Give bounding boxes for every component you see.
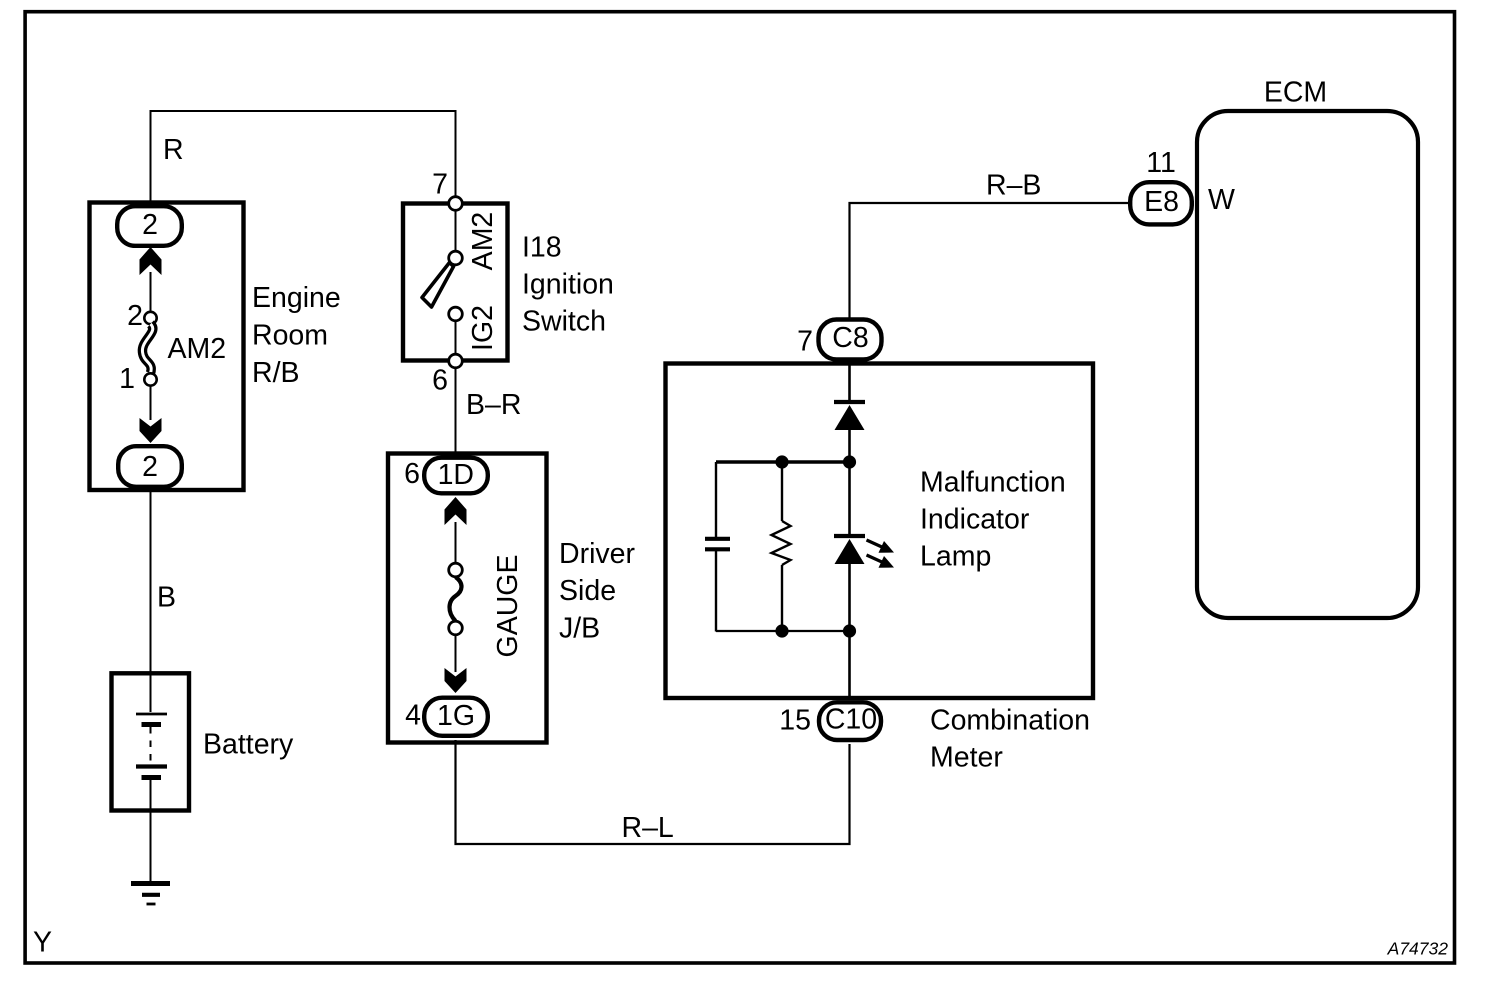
- resistor: [772, 521, 791, 565]
- capacitor plate: [705, 547, 730, 551]
- wire: [455, 321, 457, 354]
- svg-text:IG2: IG2: [467, 305, 499, 351]
- LED emission arrow 2: [867, 555, 895, 568]
- fuse GAUGE bottom terminal: [449, 621, 463, 635]
- svg-text:Engine: Engine: [252, 282, 341, 314]
- svg-text:R–B: R–B: [986, 170, 1041, 202]
- svg-text:AM2: AM2: [467, 212, 499, 271]
- battery plate - (short thick): [142, 722, 162, 727]
- switch contact IG2 node: [449, 307, 463, 321]
- terminal 2 of fusible link: [127, 300, 157, 332]
- svg-text:1: 1: [119, 363, 135, 395]
- connector oval 1G: [405, 698, 488, 736]
- svg-text:15: 15: [779, 704, 811, 736]
- diode D1 cathode bar: [834, 400, 865, 404]
- capacitor plate: [705, 537, 730, 541]
- label Combination Meter: [930, 705, 1090, 774]
- connector oval C10: [779, 702, 881, 740]
- svg-text:Indicator: Indicator: [920, 504, 1030, 536]
- ignition switch I18 box: [403, 204, 508, 361]
- battery plate - (short thick): [142, 775, 162, 780]
- wire to ground: [150, 810, 152, 881]
- svg-text:A74732: A74732: [1387, 939, 1449, 959]
- capacitor branch wire: [715, 551, 717, 632]
- svg-text:E8: E8: [1144, 186, 1179, 218]
- svg-text:B–R: B–R: [466, 389, 521, 421]
- svg-text:Ignition: Ignition: [522, 269, 614, 301]
- ground: [131, 884, 170, 905]
- svg-text:Battery: Battery: [203, 728, 294, 760]
- svg-text:AM2: AM2: [168, 333, 227, 365]
- junction block box Driver Side J/B: [388, 454, 547, 743]
- LED triangle: [835, 539, 865, 564]
- battery plate + (long): [136, 713, 167, 716]
- connector oval C8: [797, 320, 881, 360]
- wire (bottom shunt): [716, 630, 850, 632]
- svg-text:J/B: J/B: [559, 613, 600, 645]
- wire: [455, 634, 457, 672]
- svg-text:Switch: Switch: [522, 306, 606, 338]
- up arrow (wire direction): [445, 497, 467, 525]
- svg-text:7: 7: [432, 169, 448, 201]
- connector oval E8 pin 11: [1130, 147, 1192, 224]
- capacitor branch wire: [715, 462, 717, 537]
- resistor branch wire: [781, 462, 783, 521]
- svg-text:B: B: [157, 582, 176, 614]
- LED (malfunction indicator lamp) cathode bar: [834, 534, 865, 538]
- switch pivot node: [449, 251, 463, 265]
- diode D1: [835, 405, 865, 430]
- svg-text:C10: C10: [825, 704, 877, 736]
- fuse GAUGE top terminal: [449, 563, 463, 577]
- svg-text:I18: I18: [522, 232, 562, 264]
- svg-text:C8: C8: [832, 322, 868, 354]
- svg-text:Y: Y: [33, 926, 52, 958]
- wire R-B (to ECM): [850, 203, 1129, 318]
- wire (top shunt): [716, 460, 850, 463]
- svg-text:2: 2: [142, 209, 158, 241]
- svg-text:Driver: Driver: [559, 538, 636, 570]
- svg-text:7: 7: [797, 326, 813, 358]
- svg-text:2: 2: [142, 451, 158, 483]
- svg-text:Malfunction: Malfunction: [920, 467, 1066, 499]
- ECM box: [1197, 111, 1418, 618]
- terminal 6 (IG2): [432, 354, 462, 396]
- connector oval 2 (bottom): [118, 446, 182, 487]
- wire: [455, 522, 457, 565]
- connector oval 1D: [404, 458, 488, 494]
- wire: [455, 211, 457, 251]
- svg-text:1D: 1D: [438, 459, 474, 491]
- label I18 Ignition Switch: [522, 232, 614, 338]
- svg-text:Side: Side: [559, 575, 616, 607]
- wire: [848, 428, 851, 535]
- svg-text:W: W: [1208, 184, 1235, 216]
- junction dot: [843, 455, 856, 468]
- switch lever: [422, 263, 454, 308]
- svg-text:2: 2: [127, 300, 143, 332]
- cell dashed link: [150, 727, 152, 765]
- svg-text:11: 11: [1146, 147, 1176, 179]
- wire: [848, 361, 851, 403]
- connector oval 2 (top): [117, 206, 182, 246]
- up arrow (wire direction): [140, 247, 162, 275]
- fuse GAUGE element: [449, 577, 461, 621]
- label Malfunction Indicator Lamp: [920, 467, 1066, 573]
- svg-text:R/B: R/B: [252, 357, 300, 389]
- label Driver Side J/B: [559, 538, 636, 645]
- wire B-R: [455, 368, 457, 453]
- svg-text:4: 4: [405, 700, 421, 732]
- label Engine Room R/B: [252, 282, 341, 389]
- combination meter box: [666, 364, 1094, 699]
- wire R (battery feed from Engine Room R/B to ignition switch): [151, 111, 456, 204]
- svg-text:6: 6: [432, 365, 448, 397]
- wire: [150, 272, 152, 312]
- junction dot: [843, 624, 856, 637]
- fusible link AM2: [142, 324, 152, 373]
- svg-text:GAUGE: GAUGE: [492, 555, 524, 658]
- relay block box Engine Room R/B: [90, 203, 244, 491]
- down arrow (wire direction): [445, 668, 467, 693]
- wire R-L: [456, 740, 850, 844]
- svg-text:Lamp: Lamp: [920, 541, 991, 573]
- svg-text:Meter: Meter: [930, 742, 1003, 774]
- battery plate + (long): [136, 764, 167, 768]
- svg-text:6: 6: [404, 458, 420, 490]
- svg-text:R–L: R–L: [622, 812, 674, 844]
- terminal 1 of fusible link: [119, 363, 157, 395]
- svg-text:R: R: [163, 134, 184, 166]
- LED emission arrow 1: [867, 540, 895, 553]
- battery: [112, 673, 190, 811]
- svg-text:ECM: ECM: [1264, 77, 1327, 109]
- wire: [150, 386, 152, 420]
- wire: [848, 562, 851, 700]
- terminal 7 (AM2): [432, 169, 462, 211]
- svg-text:Room: Room: [252, 320, 328, 352]
- wire B (to battery): [150, 490, 152, 672]
- svg-text:Combination: Combination: [930, 705, 1090, 737]
- junction dot: [775, 455, 788, 468]
- down arrow (wire direction): [140, 418, 162, 443]
- svg-text:1G: 1G: [437, 700, 475, 732]
- junction dot: [775, 624, 788, 637]
- resistor branch wire: [781, 565, 783, 632]
